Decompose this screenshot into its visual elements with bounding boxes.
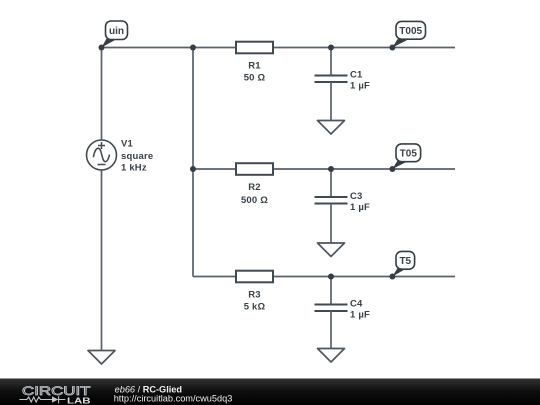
capacitor C1 bbox=[315, 48, 371, 121]
wire row3 horizontal right of R3 bbox=[273, 276, 455, 278]
svg-text:R1: R1 bbox=[248, 60, 261, 71]
svg-text:http://circuitlab.com/cwu5dq3: http://circuitlab.com/cwu5dq3 bbox=[114, 394, 233, 404]
svg-text:V1: V1 bbox=[121, 139, 134, 150]
flag T05 bbox=[389, 144, 420, 172]
junction dot row3 cap bbox=[328, 274, 334, 280]
junction dot row1 bus bbox=[190, 45, 196, 51]
svg-text:R3: R3 bbox=[248, 289, 261, 300]
svg-text:square: square bbox=[121, 151, 153, 162]
svg-text:50 Ω: 50 Ω bbox=[244, 73, 266, 84]
svg-text:5 kΩ: 5 kΩ bbox=[244, 302, 266, 313]
junction dot row2 bus bbox=[190, 166, 196, 172]
voltage source V1 bbox=[87, 139, 154, 174]
flag T005 bbox=[389, 21, 425, 50]
svg-text:T5: T5 bbox=[399, 256, 411, 267]
ground under C3 bbox=[318, 243, 345, 257]
wire row1 horizontal left of R1 bbox=[102, 47, 237, 49]
resistor R3 bbox=[236, 271, 273, 313]
svg-text:1 kHz: 1 kHz bbox=[121, 163, 147, 174]
svg-text:C4: C4 bbox=[350, 298, 363, 309]
ground under C4 bbox=[318, 349, 345, 363]
svg-text:C3: C3 bbox=[350, 191, 363, 202]
wire row2 horizontal right of R2 bbox=[273, 168, 455, 170]
ground under V1 bbox=[88, 351, 115, 365]
svg-text:LAB: LAB bbox=[67, 395, 91, 405]
capacitor C4 bbox=[315, 277, 371, 349]
wire vertical bus bbox=[192, 48, 194, 277]
junction dot row2 cap bbox=[328, 166, 334, 172]
svg-text:1 µF: 1 µF bbox=[350, 202, 370, 213]
wire row2 horizontal left of R2 bbox=[193, 168, 236, 170]
svg-text:1 µF: 1 µF bbox=[350, 81, 370, 92]
svg-text:T05: T05 bbox=[400, 148, 418, 159]
wire row3 horizontal left of R3 bbox=[193, 276, 236, 278]
resistor R2 bbox=[236, 163, 273, 206]
wire left vertical above V1 bbox=[101, 48, 103, 141]
svg-text:uin: uin bbox=[109, 26, 124, 37]
footer bar bbox=[0, 379, 540, 405]
svg-text:500 Ω: 500 Ω bbox=[241, 195, 268, 206]
logo zigzag wire and diode bbox=[19, 396, 65, 403]
svg-text:C1: C1 bbox=[350, 69, 363, 80]
wire left vertical below V1 bbox=[101, 170, 103, 351]
svg-text:T005: T005 bbox=[399, 26, 422, 37]
logo diode triangle bbox=[52, 396, 58, 402]
capacitor C3 bbox=[315, 169, 371, 243]
flag T5 bbox=[389, 251, 414, 279]
svg-text:R2: R2 bbox=[248, 182, 261, 193]
wire row1 horizontal right of R1 bbox=[273, 47, 455, 49]
resistor R1 bbox=[236, 42, 273, 84]
junction dot row1 cap bbox=[328, 45, 334, 51]
flag uin bbox=[99, 21, 128, 51]
ground under C1 bbox=[318, 121, 345, 135]
svg-text:1 µF: 1 µF bbox=[350, 310, 370, 321]
